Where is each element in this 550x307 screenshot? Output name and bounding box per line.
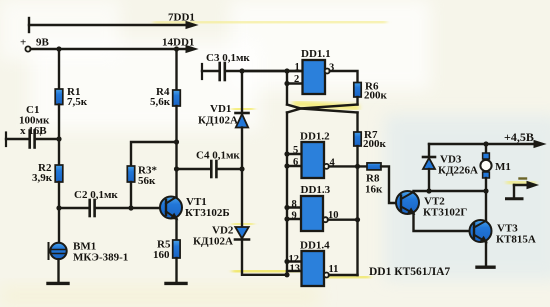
capacitor C2 — [59, 200, 166, 216]
wire pin10 output — [328, 218, 358, 220]
svg-text:+4,5В: +4,5В — [504, 130, 534, 144]
node junction pin10/outbus — [355, 217, 360, 222]
wire R3 top link — [131, 142, 177, 166]
transistor VT2 — [396, 191, 419, 214]
wire pin3 to R6 — [330, 71, 358, 83]
svg-text:VD1: VD1 — [210, 103, 231, 115]
svg-text:DD1.1: DD1.1 — [301, 48, 331, 60]
svg-text:КД102А: КД102А — [193, 236, 233, 248]
minus mark near common arrow — [520, 177, 527, 179]
svg-text:КТ815А: КТ815А — [496, 234, 536, 246]
node junction R3 link — [174, 139, 179, 144]
wire R6 bottom — [356, 97, 358, 105]
svg-text:+: + — [20, 37, 26, 49]
node junction C3/VD1 — [239, 68, 244, 73]
resistor R6 — [354, 83, 361, 98]
node junction C4 left — [174, 166, 179, 171]
svg-text:DD1.4: DD1.4 — [300, 239, 330, 251]
svg-text:56к: 56к — [138, 175, 156, 187]
svg-text:200к: 200к — [364, 90, 388, 102]
wire VD1 to C4 node — [241, 128, 243, 170]
node junction pin13 bottom — [284, 272, 289, 277]
svg-text:7,5к: 7,5к — [67, 96, 88, 108]
capacitor C1 — [6, 131, 59, 148]
wire R2 to C2 node — [58, 182, 60, 208]
wire input bus lower — [286, 113, 288, 275]
node junction pin5 — [284, 151, 289, 156]
node junction pin8 — [284, 205, 289, 210]
svg-text:DD1.3: DD1.3 — [301, 184, 331, 196]
node junction R7/outbus — [355, 164, 360, 169]
svg-text:13: 13 — [290, 264, 301, 275]
svg-text:КТ3102Б: КТ3102Б — [185, 207, 230, 219]
node junction pin12 — [284, 259, 289, 264]
svg-text:DD1 КТ561ЛА7: DD1 КТ561ЛА7 — [369, 266, 450, 278]
svg-text:14DD1: 14DD1 — [162, 37, 194, 49]
capacitor C3 — [202, 63, 303, 80]
wire pin13 stub — [287, 270, 302, 272]
wire 7DD1 rail — [29, 18, 197, 32]
wire VD1 top — [241, 71, 243, 113]
diode VD3 — [423, 144, 435, 191]
gate DD1.1 — [303, 60, 326, 94]
svg-text:C2 0,1мк: C2 0,1мк — [74, 189, 118, 201]
svg-text:3: 3 — [329, 63, 334, 74]
svg-text:160: 160 — [153, 249, 170, 261]
common arrow symbol — [507, 182, 538, 199]
svg-text:10: 10 — [328, 210, 339, 221]
svg-text:КД102А: КД102А — [198, 115, 238, 127]
wire R7 branch — [356, 113, 358, 133]
wire BM1 to ground — [57, 259, 59, 282]
diode VD2 — [235, 227, 249, 240]
wire R1 to C1 node — [58, 105, 60, 140]
motor M1 — [480, 144, 491, 191]
svg-text:6: 6 — [293, 157, 298, 168]
wire output bus — [356, 166, 358, 275]
node junction C4 right — [239, 166, 244, 171]
svg-text:МКЭ-389-1: МКЭ-389-1 — [73, 252, 128, 264]
wire R7 to output bus — [356, 146, 358, 166]
gate DD1.2 — [302, 142, 325, 178]
svg-text:5: 5 — [293, 145, 298, 156]
svg-text:x 16В: x 16В — [20, 125, 47, 137]
wire R5 to ground — [175, 258, 177, 282]
wire pin12 stub — [287, 260, 302, 262]
resistor R2 — [55, 165, 63, 182]
node junction pin9 — [284, 216, 289, 221]
svg-text:C4 0,1мк: C4 0,1мк — [196, 150, 240, 162]
wire +4.5V rail — [429, 141, 545, 148]
wire R4 branch — [175, 49, 177, 90]
wire pin11 output — [329, 274, 358, 276]
node junction C2/BM1 — [56, 205, 61, 210]
wire pin5 stub — [287, 153, 302, 155]
node junction C1 — [56, 136, 61, 141]
gate DD1.3 — [301, 196, 323, 231]
svg-text:8: 8 — [292, 199, 297, 210]
node junction M1 top — [483, 141, 488, 146]
node junction pin6 — [284, 163, 289, 168]
ground VT3 — [477, 266, 494, 269]
pin 11 bubble — [324, 273, 329, 278]
wire 9V rail to 14DD1 — [31, 46, 197, 53]
node junction 9V/R4 — [174, 46, 179, 51]
wire cross B — [287, 105, 358, 113]
resistor R5 — [173, 240, 180, 258]
svg-text:16к: 16к — [365, 184, 383, 196]
svg-text:C3 0,1мк: C3 0,1мк — [206, 52, 250, 64]
resistor R1 — [55, 89, 63, 105]
node +9V terminal — [25, 46, 30, 51]
microphone BM1 — [49, 243, 67, 259]
wire VT3 collector to M1 node — [485, 191, 487, 221]
wire pin8 stub — [287, 206, 301, 208]
capacitor C4 — [177, 161, 243, 177]
wire cross A — [287, 105, 358, 113]
wire node to BM1 — [58, 208, 60, 243]
node junction pin2 — [284, 81, 289, 86]
wire VT2 collector — [414, 191, 487, 192]
svg-text:9: 9 — [292, 210, 297, 221]
wire pin6 stub — [287, 165, 302, 167]
wire pin2 stub — [287, 82, 303, 84]
ground BM1 — [48, 282, 68, 285]
wire C3 node to DD1.1 pin1 — [242, 70, 303, 72]
svg-text:КТ3102Г: КТ3102Г — [423, 207, 467, 219]
svg-text:11: 11 — [329, 264, 339, 275]
svg-text:7DD1: 7DD1 — [168, 12, 195, 24]
svg-text:200к: 200к — [363, 138, 387, 150]
resistor R8 — [367, 163, 381, 170]
node junction M1 bottom — [483, 188, 488, 193]
svg-text:9В: 9В — [36, 37, 50, 49]
wire R4 to VT1 collector — [175, 106, 177, 197]
wire VT1 emitter to R5 — [175, 219, 177, 240]
svg-text:+: + — [38, 129, 43, 139]
wire R8 to VT2 base — [381, 166, 401, 203]
svg-text:3,9к: 3,9к — [32, 172, 53, 184]
gate DD1.4 — [302, 251, 325, 286]
wire pin4 output — [329, 165, 367, 167]
ground VT1/R5 — [166, 282, 186, 285]
wire VT2 emitter to VT3 base — [414, 214, 475, 232]
transistor VT3 — [470, 220, 492, 242]
wire VD2 to bottom — [242, 240, 287, 275]
wire node to R2 — [58, 139, 60, 165]
diode VD1 — [236, 113, 249, 128]
transistor VT1 — [160, 197, 182, 220]
svg-text:1: 1 — [295, 62, 300, 73]
svg-text:M1: M1 — [495, 161, 511, 173]
svg-text:4: 4 — [330, 158, 336, 169]
resistor R3* — [127, 166, 134, 182]
svg-text:5,6к: 5,6к — [150, 96, 171, 108]
resistor R7 — [354, 132, 361, 146]
svg-text:2: 2 — [294, 74, 299, 85]
svg-text:КД226А: КД226А — [438, 165, 478, 177]
pin 3 bubble — [325, 69, 330, 74]
pin 4 bubble — [324, 164, 329, 169]
wire C4 node to VD2 — [241, 169, 243, 227]
node junction R3/C2 — [128, 205, 133, 210]
resistor R4 — [173, 90, 181, 106]
pin 10 bubble — [323, 217, 328, 222]
svg-text:DD1.2: DD1.2 — [300, 131, 330, 143]
wire R3 bottom — [130, 182, 132, 208]
node junction 9V/R1 — [56, 46, 61, 51]
wire pin9 stub — [287, 218, 301, 220]
node junction pin1/pin2 bus — [284, 68, 289, 73]
wire input bus upper — [286, 71, 288, 105]
wire 9V to R1 — [58, 49, 60, 89]
wire VT3 emitter to ground — [485, 242, 487, 266]
node junction VD3 — [426, 188, 431, 193]
